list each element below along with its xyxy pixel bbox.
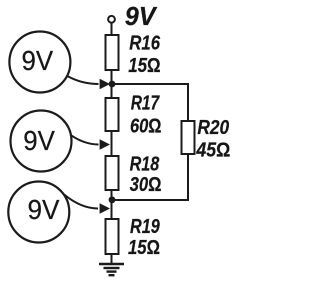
svg-text:R20: R20 xyxy=(197,116,229,139)
svg-text:R16: R16 xyxy=(129,31,160,54)
svg-text:15Ω: 15Ω xyxy=(128,54,160,77)
svg-text:9V: 9V xyxy=(22,45,54,76)
svg-text:R18: R18 xyxy=(130,153,160,176)
svg-text:R19: R19 xyxy=(130,215,160,238)
svg-text:45Ω: 45Ω xyxy=(196,138,231,161)
svg-text:9V: 9V xyxy=(28,194,61,225)
svg-text:30Ω: 30Ω xyxy=(130,173,162,196)
svg-text:15Ω: 15Ω xyxy=(128,236,160,259)
svg-text:9V: 9V xyxy=(125,1,158,31)
svg-text:R17: R17 xyxy=(131,92,161,115)
svg-text:60Ω: 60Ω xyxy=(130,115,162,138)
svg-text:9V: 9V xyxy=(23,125,55,156)
